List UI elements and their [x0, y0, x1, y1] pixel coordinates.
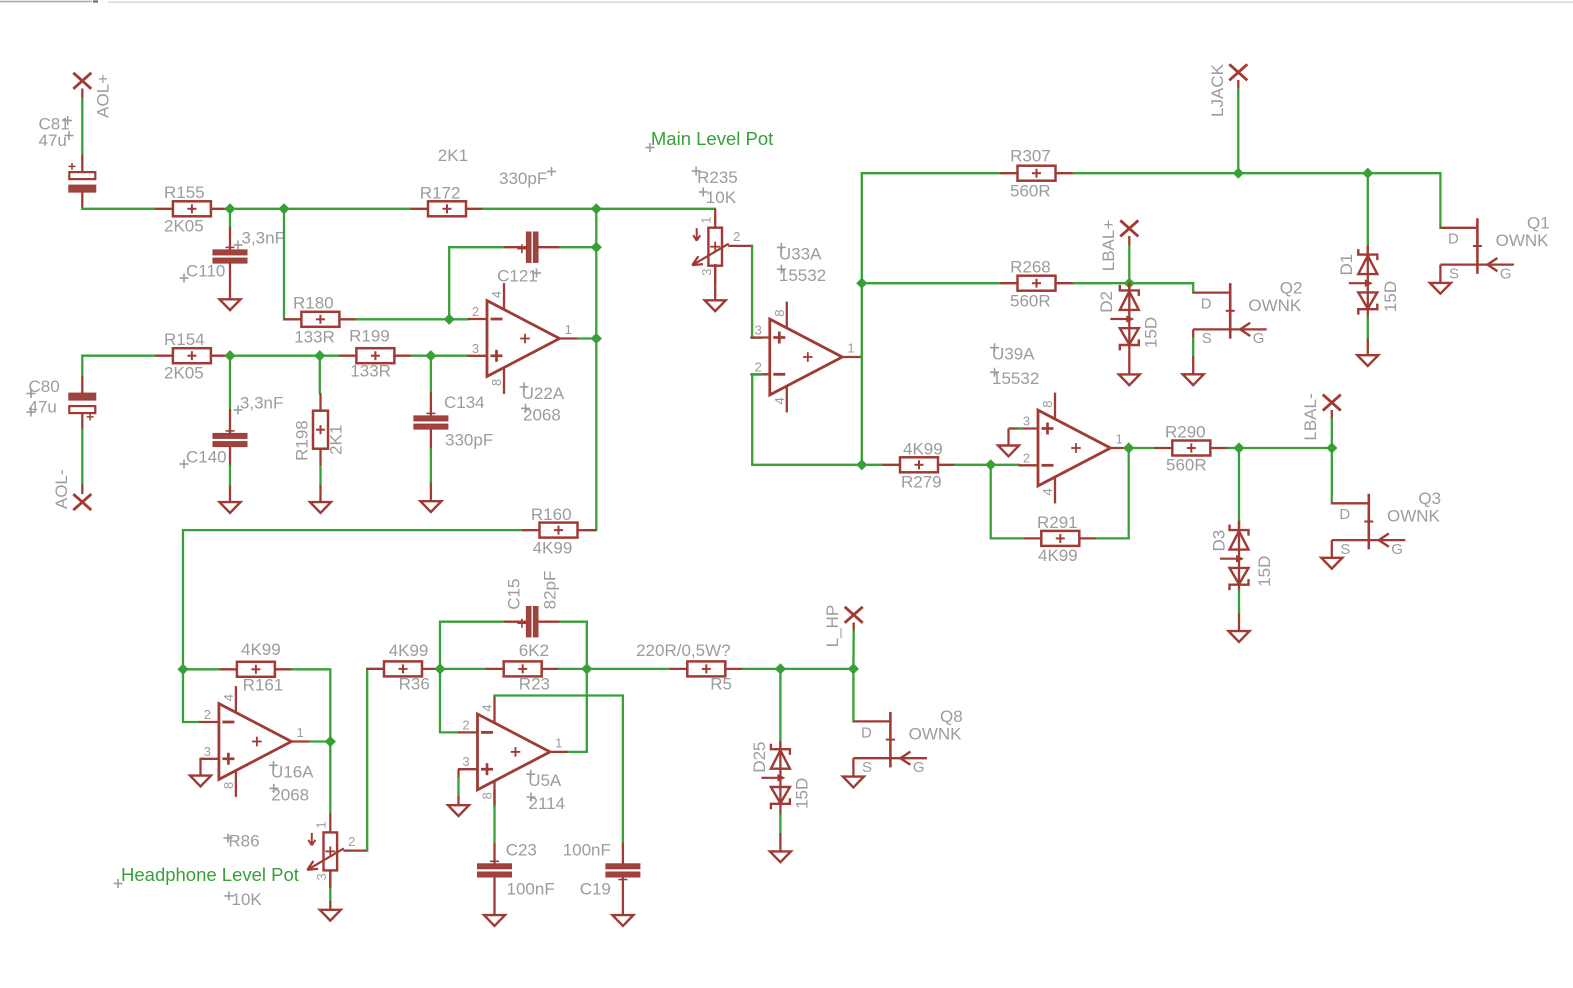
capacitor C80 polarity: [87, 413, 94, 420]
svg-text:R291: R291: [1037, 513, 1078, 532]
wire R290 row: [1129, 447, 1155, 449]
wire R307 row: [1074, 172, 1238, 174]
junction: [314, 350, 325, 361]
transistor Q2 source lead: [1192, 329, 1194, 338]
label R199 value: [350, 362, 391, 381]
wire R291 loop right: [1097, 448, 1129, 538]
svg-text:3: 3: [472, 341, 479, 356]
label R307 value: [1010, 181, 1051, 200]
capacitor C134 lead: [430, 483, 432, 501]
svg-text:15D: 15D: [1255, 556, 1274, 587]
wire row2: [320, 355, 339, 357]
label R291: [1037, 513, 1078, 532]
potentiometer R235: [692, 209, 752, 283]
svg-text:C121: C121: [497, 266, 538, 285]
svg-text:G: G: [1253, 330, 1265, 347]
wire: [457, 778, 459, 796]
junction: [434, 663, 445, 674]
diode D25 top lead: [779, 742, 781, 750]
op-amp U5A pin3 ground lead: [457, 796, 459, 805]
net name Main Level Pot: [646, 128, 774, 152]
wire R307 row: [862, 172, 1002, 174]
ground D3: [1229, 631, 1250, 642]
pin LBAL-: [1323, 395, 1341, 411]
label C81 value: [39, 131, 74, 150]
svg-text:S: S: [1202, 330, 1212, 347]
svg-text:C15: C15: [504, 579, 523, 610]
label C23: [506, 841, 537, 860]
svg-text:G: G: [1391, 541, 1403, 558]
wire row2 to pin3: [431, 355, 468, 357]
op-amp U33A label U33A: [777, 243, 822, 264]
svg-text:220R/0,5W?: 220R/0,5W?: [636, 641, 731, 660]
resistor R180: [284, 312, 357, 327]
svg-text:8: 8: [489, 379, 504, 386]
svg-text:1: 1: [555, 735, 562, 750]
svg-text:S: S: [862, 759, 872, 776]
label C80 value: [27, 397, 57, 416]
svg-text:Headphone Level Pot: Headphone Level Pot: [121, 864, 299, 885]
resistor R172: [411, 201, 484, 216]
svg-text:4: 4: [221, 694, 236, 701]
wire: [1238, 590, 1240, 613]
pin AOL+ stub: [81, 89, 83, 99]
ground D25: [770, 851, 791, 862]
wire R36 right: [438, 668, 441, 670]
resistor R161: [219, 662, 292, 677]
svg-text:C80: C80: [29, 377, 60, 396]
potentiometer R86: [307, 813, 367, 887]
label C81: [39, 115, 73, 134]
wire net AOL-: [81, 430, 83, 485]
op-amp U33A: [750, 302, 861, 413]
label R172: [420, 183, 461, 202]
diode D3: [1220, 522, 1249, 590]
wire: [283, 209, 285, 319]
label R23 value: [519, 641, 549, 660]
op-amp U33A label 15532: [777, 265, 826, 286]
svg-text:10K: 10K: [232, 890, 263, 909]
svg-text:C134: C134: [444, 393, 485, 412]
op-amp U16A pin3 ground wire: [201, 759, 206, 776]
svg-text:S: S: [1449, 265, 1459, 282]
transistor Q8: [853, 707, 962, 776]
capacitor C121: [504, 232, 561, 262]
svg-text:4K99: 4K99: [389, 641, 429, 660]
capacitor C19 lead: [622, 877, 624, 915]
resistor R5: [670, 661, 743, 676]
ground C140: [220, 502, 241, 513]
svg-text:2K1: 2K1: [438, 146, 468, 165]
wire vertical x596: [595, 209, 597, 530]
wire R160 row: [183, 529, 533, 531]
pin L_HP: [845, 607, 863, 623]
junction: [325, 736, 336, 747]
label R23: [519, 675, 550, 694]
svg-text:2: 2: [462, 717, 469, 732]
wire R279 row: [862, 464, 883, 466]
svg-text:8: 8: [1040, 400, 1055, 407]
pin AOL+: [73, 73, 91, 89]
svg-text:3: 3: [204, 744, 211, 759]
svg-text:R5: R5: [710, 675, 732, 694]
wire R161 right: [292, 669, 330, 741]
svg-text:AOL+: AOL+: [94, 74, 113, 118]
diode D2 top lead: [1128, 283, 1130, 290]
wire to pot R86: [329, 742, 331, 814]
junction: [224, 203, 235, 214]
svg-text:U22A: U22A: [522, 384, 565, 403]
wire row1 to pot: [596, 208, 715, 210]
diode D1: [1349, 247, 1378, 318]
wire net D3: [1238, 448, 1240, 521]
junction: [856, 459, 867, 470]
junction: [177, 664, 188, 675]
op-amp U5A pin3 ground wire: [459, 769, 464, 778]
svg-text:R160: R160: [531, 505, 572, 524]
svg-text:LBAL+: LBAL+: [1099, 220, 1118, 272]
wire U39A out: [1125, 447, 1129, 449]
wire row1: [284, 208, 410, 210]
wire R290 row: [1228, 447, 1239, 449]
junction: [591, 242, 602, 253]
op-amp U5A pin8 lead: [493, 790, 495, 806]
svg-text:330pF: 330pF: [499, 169, 547, 188]
svg-text:Main Level Pot: Main Level Pot: [651, 128, 773, 149]
label R198: [292, 420, 311, 461]
svg-text:8: 8: [772, 309, 787, 316]
wire C121 right: [560, 246, 596, 248]
svg-text:D: D: [1339, 506, 1350, 523]
svg-text:U39A: U39A: [992, 345, 1035, 364]
label C15 value: [541, 571, 560, 610]
wire R180 row to pin2: [449, 318, 467, 320]
resistor R268: [1000, 276, 1073, 291]
ground Q2: [1183, 374, 1204, 385]
svg-text:D25: D25: [750, 742, 769, 773]
svg-text:1: 1: [565, 322, 572, 337]
pin AOL-: [73, 494, 91, 510]
label R161 value: [241, 640, 281, 659]
junction: [1233, 168, 1244, 179]
svg-text:330pF: 330pF: [445, 431, 493, 450]
label C110: [180, 262, 226, 283]
label R198 value: [326, 425, 345, 455]
wire net D1: [1367, 173, 1369, 245]
svg-text:OWNK: OWNK: [1248, 296, 1302, 315]
svg-text:R198: R198: [292, 420, 311, 461]
wire row2: [412, 355, 431, 357]
junction: [425, 350, 436, 361]
label R279: [901, 473, 942, 492]
svg-text:8: 8: [480, 792, 495, 799]
svg-text:133R: 133R: [294, 328, 335, 347]
resistor R36: [367, 661, 440, 676]
label D3: [1210, 530, 1229, 552]
svg-text:2K05: 2K05: [164, 217, 204, 236]
resistor R279: [883, 457, 956, 472]
op-amp U16A: [199, 686, 310, 797]
wire: [319, 356, 321, 393]
ground R235: [705, 300, 726, 311]
label R155: [164, 183, 205, 202]
pin LBAL+: [1120, 220, 1138, 236]
label R172 value: [438, 146, 468, 165]
wire vertical x861: [861, 173, 863, 465]
svg-text:R307: R307: [1010, 147, 1051, 166]
label C15: [504, 579, 523, 610]
capacitor C110 lead: [229, 263, 231, 299]
svg-text:R199: R199: [349, 326, 390, 345]
svg-text:D2: D2: [1097, 291, 1116, 313]
svg-text:15532: 15532: [992, 369, 1039, 388]
wire R161 row: [183, 668, 220, 670]
wire U22A out: [578, 337, 596, 339]
svg-text:2: 2: [1023, 450, 1030, 465]
transistor Q3 source lead: [1331, 540, 1333, 558]
wire R290 row: [1239, 447, 1332, 449]
capacitor C23 lead: [493, 877, 495, 915]
wire R279 row: [956, 464, 991, 466]
label D25 value: [793, 778, 812, 809]
svg-text:100nF: 100nF: [563, 841, 611, 860]
diode D25: [761, 741, 790, 815]
svg-text:4K99: 4K99: [533, 539, 573, 558]
label R5: [710, 675, 732, 694]
label R290 value: [1166, 456, 1207, 475]
svg-text:Q8: Q8: [940, 707, 963, 726]
svg-text:8: 8: [221, 782, 236, 789]
wire C15 left: [440, 622, 504, 669]
op-amp U22A label 2068: [521, 404, 561, 425]
potentiometer R86 pin3 lead: [329, 870, 331, 889]
svg-text:1: 1: [847, 341, 854, 356]
svg-text:4: 4: [1040, 488, 1055, 495]
svg-text:OWNK: OWNK: [909, 725, 963, 744]
wire pot R86 wiper up: [367, 669, 384, 851]
wire R279 to pin2: [991, 464, 1019, 466]
junction: [848, 663, 859, 674]
svg-text:R154: R154: [164, 330, 205, 349]
resistor R23: [486, 661, 559, 676]
capacitor C19: [606, 844, 640, 885]
label D2: [1097, 291, 1116, 313]
wire net AOL+ vertical: [81, 98, 83, 154]
ground Q8: [843, 777, 864, 788]
svg-text:S: S: [1340, 541, 1350, 558]
svg-text:R23: R23: [519, 675, 550, 694]
label R86: [224, 832, 260, 851]
junction: [224, 350, 235, 361]
svg-text:D: D: [1201, 296, 1212, 313]
svg-text:4: 4: [480, 704, 495, 711]
junction: [1326, 442, 1337, 453]
op-amp U16A label 2068: [269, 784, 309, 805]
pin L_HP stub: [853, 623, 855, 632]
ground D1: [1357, 355, 1378, 366]
ground D2: [1119, 374, 1140, 385]
svg-text:U16A: U16A: [271, 762, 314, 781]
resistor R160 lead: [578, 529, 597, 531]
svg-text:Q1: Q1: [1527, 214, 1550, 233]
svg-text:82pF: 82pF: [541, 571, 560, 610]
wire net LBAL-: [1331, 419, 1333, 448]
wire R307 row: [1238, 172, 1368, 174]
resistor R160: [522, 523, 595, 538]
svg-text:6K2: 6K2: [519, 641, 549, 660]
svg-text:2: 2: [472, 304, 479, 319]
ground C134: [420, 501, 441, 512]
label R268: [1010, 258, 1051, 277]
diode D1 lead: [1367, 338, 1369, 355]
junction: [591, 333, 602, 344]
wire C80 top: [81, 356, 83, 376]
svg-text:4: 4: [772, 397, 787, 404]
capacitor C110: [213, 227, 247, 263]
resistor R155: [155, 201, 228, 216]
label C140 value: [234, 394, 284, 415]
wire R180 row: [357, 318, 449, 320]
svg-text:R86: R86: [228, 832, 259, 851]
label D25: [750, 742, 769, 773]
label R36: [399, 675, 430, 694]
label R160: [531, 505, 572, 524]
svg-text:3: 3: [1023, 414, 1030, 429]
wire R268 row to Q2: [1129, 283, 1193, 292]
wire U16A out: [310, 740, 330, 742]
wire pot wiper to U33A pin3: [752, 246, 761, 338]
wire row2: [82, 355, 155, 357]
label R235 value: [699, 188, 737, 207]
svg-text:Q3: Q3: [1418, 489, 1441, 508]
svg-text:OWNK: OWNK: [1496, 231, 1550, 250]
svg-text:2: 2: [348, 834, 355, 849]
svg-text:LBAL-: LBAL-: [1301, 393, 1320, 440]
svg-text:1: 1: [1116, 432, 1123, 447]
svg-text:3: 3: [755, 323, 762, 338]
diode D3 top lead: [1238, 521, 1240, 530]
svg-text:D3: D3: [1210, 530, 1229, 552]
wire R23 right: [559, 668, 587, 670]
op-amp U5A label U5A: [526, 770, 562, 791]
svg-text:AOL-: AOL-: [52, 469, 71, 509]
svg-text:R36: R36: [399, 675, 430, 694]
svg-text:C23: C23: [506, 841, 537, 860]
svg-text:Q2: Q2: [1280, 278, 1303, 297]
junction: [1124, 278, 1135, 289]
net label L_HP: [823, 605, 842, 648]
transistor Q2 source lead: [1192, 356, 1194, 374]
resistor R307: [1000, 166, 1073, 181]
label C140: [180, 448, 227, 469]
svg-text:2: 2: [733, 229, 740, 244]
wire row1: [484, 208, 597, 210]
svg-text:D: D: [1448, 231, 1459, 248]
svg-text:2: 2: [755, 359, 762, 374]
ground R198: [310, 502, 331, 513]
wire R5 row: [743, 668, 780, 670]
svg-text:3: 3: [314, 873, 329, 880]
svg-text:3,3nF: 3,3nF: [240, 394, 283, 413]
label C23 value: [507, 880, 555, 899]
label R307: [1010, 147, 1051, 166]
svg-text:G: G: [1500, 265, 1512, 282]
diode D25 lead: [779, 833, 781, 851]
transistor Q1 source lead: [1439, 265, 1441, 283]
op-amp U39A label U39A: [990, 343, 1035, 364]
label D1 value: [1381, 281, 1400, 312]
wire: [1367, 318, 1369, 339]
label R161: [243, 676, 284, 695]
op-amp U5A label 2114: [527, 793, 566, 814]
capacitor C23: [478, 844, 512, 878]
svg-text:1: 1: [313, 821, 328, 828]
svg-text:15532: 15532: [779, 266, 826, 285]
ground Q1: [1430, 283, 1451, 294]
transistor Q3: [1332, 489, 1441, 558]
label C19 value: [563, 841, 611, 860]
pin LJACK stub: [1237, 80, 1239, 89]
svg-text:R161: R161: [243, 676, 284, 695]
ground R86: [320, 910, 341, 921]
capacitor C15: [504, 607, 561, 637]
wire R291 loop: [991, 465, 1024, 539]
junction: [1123, 442, 1134, 453]
transistor Q2: [1193, 278, 1302, 347]
label R86 value: [224, 890, 262, 909]
junction: [1362, 168, 1373, 179]
capacitor C140: [213, 409, 247, 447]
svg-text:R155: R155: [164, 183, 205, 202]
wire U5A out: [569, 669, 587, 752]
capacitor C134: [414, 393, 448, 430]
label C121: [497, 266, 541, 285]
ground C110: [220, 299, 241, 310]
label R268 value: [1010, 291, 1051, 310]
wire R268 row: [862, 282, 1002, 284]
svg-text:4K99: 4K99: [1038, 546, 1078, 565]
label C110 value: [234, 229, 285, 250]
wire row1: [228, 208, 230, 210]
label R180 value: [294, 328, 335, 347]
svg-text:4K99: 4K99: [903, 439, 943, 458]
op-amp U22A label U22A: [520, 382, 565, 403]
wire: [1019, 427, 1023, 429]
wire row1: [230, 208, 284, 210]
label R180: [293, 294, 334, 313]
wire: [1192, 338, 1194, 356]
wire: [229, 209, 231, 227]
svg-text:U5A: U5A: [528, 771, 562, 790]
svg-text:4: 4: [489, 291, 504, 298]
diode D1 top lead: [1367, 245, 1369, 254]
svg-text:47u: 47u: [29, 397, 57, 416]
resistor R291: [1024, 531, 1097, 546]
label D3 value: [1255, 556, 1274, 587]
svg-text:2K05: 2K05: [164, 363, 204, 382]
svg-text:R172: R172: [420, 183, 461, 202]
pin AOL- stub: [81, 485, 83, 494]
transistor Q1: [1440, 214, 1549, 283]
diode D3 lead: [1238, 613, 1240, 631]
wire row1: [82, 208, 155, 210]
svg-text:2K1: 2K1: [326, 425, 345, 455]
label R36 value: [389, 641, 429, 660]
svg-text:4K99: 4K99: [241, 640, 281, 659]
capacitor C140 lead: [229, 447, 231, 466]
svg-text:47u: 47u: [39, 131, 67, 150]
svg-text:10K: 10K: [706, 188, 737, 207]
